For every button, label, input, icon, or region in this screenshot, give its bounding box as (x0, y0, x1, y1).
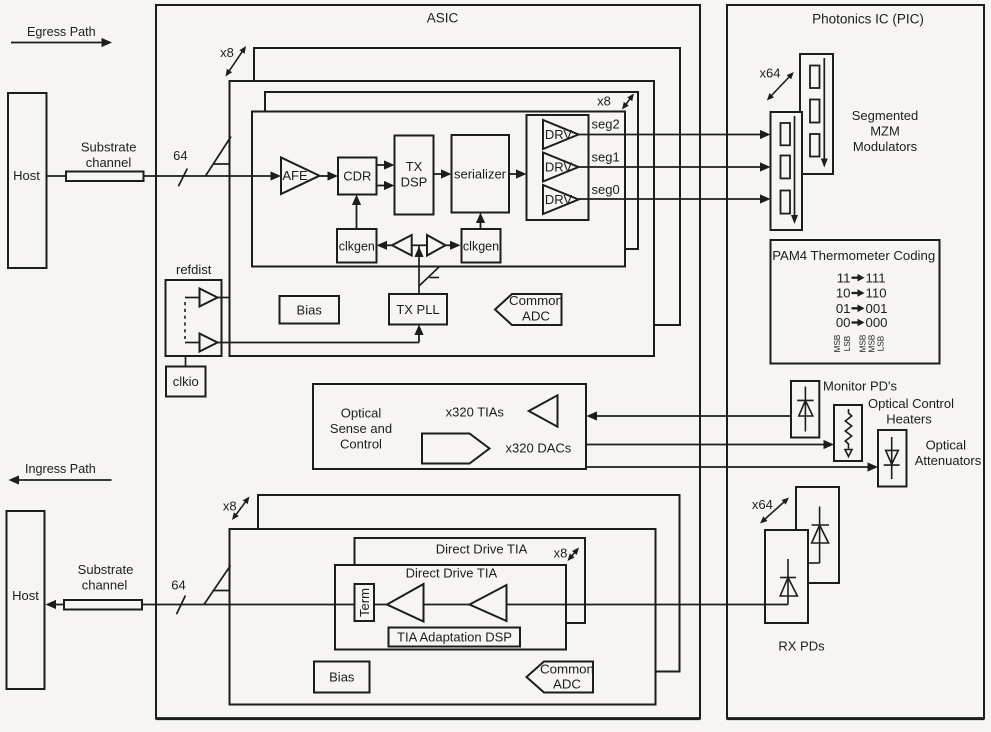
svg-text:Term: Term (357, 588, 372, 617)
svg-text:001: 001 (866, 301, 888, 316)
svg-text:MSB: MSB (868, 334, 877, 352)
svg-text:PAM4 Thermometer Coding: PAM4 Thermometer Coding (772, 248, 935, 263)
svg-text:Ingress Path: Ingress Path (25, 462, 96, 476)
svg-text:Direct Drive TIA: Direct Drive TIA (436, 542, 528, 557)
svg-text:Common: Common (540, 662, 594, 677)
svg-text:channel: channel (82, 578, 128, 593)
svg-text:000: 000 (866, 315, 888, 330)
svg-text:Segmented: Segmented (852, 108, 919, 123)
svg-text:11: 11 (837, 270, 851, 285)
svg-text:Monitor PD's: Monitor PD's (823, 379, 898, 394)
svg-text:Bias: Bias (297, 302, 323, 317)
svg-text:RX PDs: RX PDs (778, 639, 825, 654)
svg-text:Bias: Bias (329, 670, 355, 685)
svg-text:ADC: ADC (522, 309, 550, 324)
svg-text:111: 111 (866, 270, 886, 285)
svg-text:Host: Host (12, 588, 39, 603)
svg-text:x320 DACs: x320 DACs (506, 440, 572, 455)
svg-text:Substrate: Substrate (78, 562, 134, 577)
svg-text:TX: TX (406, 159, 423, 174)
svg-text:Egress Path: Egress Path (27, 25, 96, 39)
svg-text:TIA Adaptation DSP: TIA Adaptation DSP (397, 630, 512, 645)
svg-text:DRV: DRV (545, 127, 573, 142)
svg-text:Sense and: Sense and (330, 421, 392, 436)
svg-text:x320 TIAs: x320 TIAs (446, 404, 505, 419)
svg-text:x64: x64 (760, 65, 781, 80)
svg-text:Host: Host (13, 168, 40, 183)
svg-text:Optical Control: Optical Control (868, 396, 954, 411)
svg-text:Heaters: Heaters (886, 412, 932, 427)
svg-text:MSB: MSB (833, 334, 842, 352)
svg-text:Attenuators: Attenuators (915, 453, 982, 468)
svg-text:refdist: refdist (176, 262, 212, 277)
svg-text:clkgen: clkgen (463, 240, 499, 254)
svg-text:01: 01 (836, 301, 851, 316)
svg-text:channel: channel (86, 155, 132, 170)
svg-text:Common: Common (509, 293, 563, 308)
svg-text:LSB: LSB (877, 335, 886, 351)
svg-text:clkgen: clkgen (339, 240, 375, 254)
svg-text:110: 110 (866, 286, 887, 301)
svg-text:x8: x8 (554, 546, 568, 561)
svg-text:ADC: ADC (553, 677, 581, 692)
svg-text:Optical: Optical (926, 437, 967, 452)
svg-text:64: 64 (173, 148, 187, 163)
svg-text:MZM: MZM (870, 124, 900, 139)
svg-text:serializer: serializer (454, 167, 507, 182)
svg-text:Direct Drive TIA: Direct Drive TIA (406, 566, 498, 581)
svg-text:Photonics IC (PIC): Photonics IC (PIC) (812, 12, 924, 27)
svg-text:Optical: Optical (341, 406, 382, 421)
svg-text:seg2: seg2 (592, 117, 620, 132)
svg-text:DRV: DRV (545, 192, 573, 207)
svg-text:Substrate: Substrate (81, 140, 137, 155)
svg-text:DRV: DRV (545, 160, 573, 175)
svg-text:x8: x8 (223, 499, 237, 514)
svg-text:seg0: seg0 (592, 182, 620, 197)
svg-text:x8: x8 (597, 94, 611, 109)
svg-text:10: 10 (836, 286, 851, 301)
svg-text:DSP: DSP (401, 175, 428, 190)
svg-text:MSB: MSB (859, 334, 868, 352)
svg-text:Control: Control (340, 437, 382, 452)
svg-text:CDR: CDR (343, 169, 371, 184)
svg-text:TX PLL: TX PLL (396, 302, 439, 317)
svg-text:LSB: LSB (843, 335, 852, 351)
svg-text:x8: x8 (220, 45, 234, 60)
svg-text:Modulators: Modulators (853, 139, 918, 154)
svg-text:ASIC: ASIC (427, 11, 459, 26)
svg-text:clkio: clkio (173, 374, 199, 389)
svg-text:64: 64 (171, 578, 185, 593)
svg-text:seg1: seg1 (592, 150, 620, 165)
svg-text:00: 00 (836, 315, 851, 330)
svg-text:x64: x64 (752, 497, 773, 512)
svg-text:AFE: AFE (282, 168, 308, 183)
